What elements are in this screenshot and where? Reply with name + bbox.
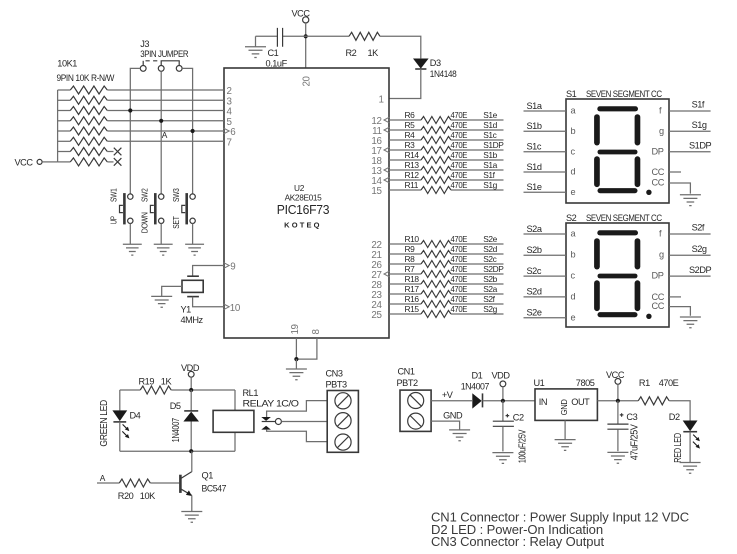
svg-text:S2a: S2a — [483, 284, 497, 294]
wire J3 pin2 to SW2 column — [160, 71, 162, 194]
svg-text:470E: 470E — [451, 284, 468, 294]
svg-text:S2d: S2d — [527, 287, 542, 297]
capacitor C2 100uF/25V — [502, 401, 504, 421]
jumper J3 dashed alternate position — [142, 61, 144, 66]
svg-text:470E: 470E — [451, 110, 468, 120]
wire lead S1c — [524, 151, 567, 153]
wire top rail left — [120, 389, 140, 391]
svg-text:470E: 470E — [451, 120, 468, 130]
wire common to CN3-2 — [281, 421, 327, 423]
svg-text:470E: 470E — [451, 264, 468, 274]
wire lead S2g — [669, 254, 711, 256]
wire lead S1DP — [669, 151, 711, 153]
svg-text:S1b: S1b — [483, 150, 497, 160]
wire junction to ground — [295, 359, 297, 369]
resistor R17 470E (pin 23 to S2a) — [389, 293, 421, 295]
svg-text:KOTEQ: KOTEQ — [284, 223, 322, 230]
svg-text:R5: R5 — [405, 120, 416, 130]
resistor R12 470E (pin 14 to S1f) — [389, 179, 421, 181]
wire crystal to pin 10 — [193, 297, 224, 307]
svg-text:470E: 470E — [451, 140, 468, 150]
resistor R8 470E (pin 26 to S2c) — [389, 263, 421, 265]
junction dot SW3 column / pin 6 row — [191, 129, 195, 133]
svg-text:S1e: S1e — [483, 110, 497, 120]
display S1 body — [566, 99, 669, 203]
ground (crystal) — [151, 296, 172, 307]
svg-text:10K: 10K — [140, 491, 156, 501]
svg-text:SW1: SW1 — [109, 188, 119, 202]
LED D4 (green) — [112, 410, 127, 421]
svg-text:10K1: 10K1 — [57, 58, 77, 68]
svg-text:OUT: OUT — [571, 397, 590, 407]
wire pin 9 to crystal — [193, 266, 224, 276]
wire lead S1a — [524, 110, 567, 112]
svg-text:1K: 1K — [368, 48, 380, 58]
svg-text:PIC16F73: PIC16F73 — [277, 202, 330, 217]
ground (SW2) — [154, 244, 173, 255]
wire pin 19 to ground — [295, 338, 297, 359]
wire lead S2b — [524, 254, 567, 256]
svg-text:D5: D5 — [170, 401, 181, 411]
svg-text:S1c: S1c — [483, 130, 496, 140]
svg-text:S1: S1 — [566, 89, 577, 99]
wire SW1 to ground — [129, 224, 131, 245]
svg-text:R3: R3 — [405, 140, 416, 150]
svg-text:470E: 470E — [451, 294, 468, 304]
wire lead S1g — [669, 130, 711, 132]
resistor network unused element 1 — [58, 151, 71, 153]
svg-text:470E: 470E — [659, 378, 679, 388]
resistor network element (pin 4 row) — [58, 110, 71, 112]
svg-text:R15: R15 — [405, 304, 420, 314]
svg-text:20: 20 — [301, 75, 312, 86]
svg-text:CN3: CN3 — [326, 369, 343, 379]
svg-text:SW3: SW3 — [171, 188, 181, 202]
svg-text:VDD: VDD — [492, 370, 511, 380]
resistor R13 470E (pin 13 to S1a) — [389, 169, 421, 171]
svg-text:RELAY 1C/O: RELAY 1C/O — [243, 399, 299, 409]
svg-text:DP: DP — [652, 146, 664, 156]
resistor R1 470E — [638, 397, 669, 405]
wire lead S1e — [524, 191, 567, 193]
ground (SW3) — [185, 244, 204, 255]
svg-text:d: d — [571, 167, 576, 177]
svg-text:470E: 470E — [451, 170, 468, 180]
regulator U1 7805 body — [535, 389, 597, 421]
switch SW2 — [159, 194, 164, 199]
wire collector — [191, 451, 193, 472]
svg-text:R6: R6 — [405, 110, 416, 120]
no-connect X mark 1 — [114, 148, 122, 156]
svg-text:Y1: Y1 — [181, 305, 192, 315]
connector CN3 PBT3 body — [327, 391, 358, 453]
svg-text:+V: +V — [442, 390, 454, 400]
svg-text:S2c: S2c — [527, 266, 542, 276]
svg-text:470E: 470E — [451, 304, 468, 314]
wire lead S1f — [669, 110, 711, 112]
svg-text:BC547: BC547 — [202, 483, 227, 493]
svg-text:RED LED: RED LED — [673, 433, 684, 463]
svg-text:1K: 1K — [161, 376, 173, 386]
svg-text:DOWN: DOWN — [140, 212, 150, 233]
wire R1 to D2 — [669, 401, 690, 421]
svg-text:D4: D4 — [130, 411, 141, 421]
wire R20 to base — [150, 482, 179, 484]
resistor network element (pin 2 row) — [58, 89, 71, 91]
junction dot VDD — [501, 399, 505, 403]
svg-text:3PIN JUMPER: 3PIN JUMPER — [140, 49, 189, 59]
svg-text:D2: D2 — [669, 412, 680, 422]
svg-text:c: c — [571, 146, 576, 156]
wire D4 to bottom rail — [119, 422, 121, 451]
svg-text:CC: CC — [652, 167, 665, 177]
capacitor C1 — [277, 28, 282, 47]
no-connect X mark 2 — [114, 158, 122, 166]
display S2 seg D — [598, 312, 638, 317]
switch SW1 — [128, 194, 133, 199]
svg-text:S1f: S1f — [483, 170, 495, 180]
wire lead S2d — [524, 296, 567, 298]
svg-text:19: 19 — [290, 324, 301, 334]
wire lead S2c — [524, 275, 567, 277]
wire NO contact to CN3-3 — [267, 430, 328, 442]
wire D1 to U1 IN — [483, 400, 536, 402]
wire rail C1 segment — [256, 35, 350, 37]
pin 10 arrow — [224, 304, 230, 310]
svg-text:GND: GND — [443, 411, 463, 421]
svg-text:DP: DP — [652, 271, 664, 281]
resistor R20 10K — [119, 479, 150, 487]
display S1 seg C — [635, 156, 641, 187]
svg-text:g: g — [659, 250, 664, 260]
wire D3 to pin 1 — [389, 69, 421, 99]
svg-text:R4: R4 — [405, 130, 416, 140]
junction dot VCC out — [616, 399, 620, 403]
wire crystal case to ground — [162, 286, 182, 296]
ground (CN1) — [449, 430, 470, 441]
ground (chip) — [286, 369, 307, 380]
display S1 seg F — [594, 114, 600, 145]
svg-text:R9: R9 — [405, 244, 416, 254]
svg-text:470E: 470E — [451, 160, 468, 170]
junction dot VDD rail — [189, 388, 193, 392]
svg-text:S2a: S2a — [527, 224, 543, 234]
wire lead S2f — [669, 233, 711, 235]
svg-text:CC: CC — [652, 177, 665, 187]
svg-text:S2f: S2f — [692, 223, 705, 233]
diode D1 1N4007 — [472, 393, 481, 408]
display S2 seg F — [594, 238, 600, 269]
svg-text:C2: C2 — [513, 412, 524, 422]
svg-text:S2DP: S2DP — [689, 265, 712, 275]
svg-text:UP: UP — [109, 216, 119, 225]
svg-text:e: e — [571, 187, 576, 197]
LED D2 (red) — [683, 421, 698, 432]
svg-text:A: A — [100, 473, 106, 483]
wire U1 GND pin — [564, 420, 566, 439]
ground (D2) — [680, 463, 701, 474]
wire lead S1d — [524, 171, 567, 173]
svg-text:SET: SET — [171, 216, 181, 229]
svg-text:SW2: SW2 — [140, 188, 150, 202]
wire +V — [431, 400, 472, 402]
junction dot pins 19/8 — [294, 357, 298, 361]
resistor R6 470E (pin 12 to S1e) — [389, 119, 421, 121]
svg-text:R2: R2 — [346, 48, 357, 58]
svg-text:a: a — [571, 229, 577, 239]
svg-text:f: f — [659, 106, 662, 116]
connector CN3 screw terminal 3 — [335, 434, 351, 450]
svg-text:c: c — [571, 271, 576, 281]
svg-text:S1f: S1f — [692, 100, 705, 110]
resistor network element (pin 3 row) — [58, 99, 71, 101]
svg-text:S2g: S2g — [483, 304, 497, 314]
svg-text:7805: 7805 — [576, 378, 595, 388]
svg-text:S2c: S2c — [483, 254, 496, 264]
display S2 body — [566, 223, 669, 327]
svg-text:C1: C1 — [268, 48, 279, 58]
display S2 seg B — [635, 238, 641, 269]
resistor R14 470E (pin 18 to S1b) — [389, 159, 421, 161]
display S1 seg A — [597, 106, 638, 111]
svg-text:S1e: S1e — [527, 182, 542, 192]
svg-text:0.1uF: 0.1uF — [266, 58, 288, 68]
wire emitter to ground — [191, 495, 193, 511]
display S1 CC pin stub — [669, 171, 681, 173]
svg-text:S2b: S2b — [483, 274, 497, 284]
svg-text:R18: R18 — [405, 274, 420, 284]
ground (C2) — [492, 453, 513, 464]
jumper J3 pin 1 circle — [140, 66, 146, 72]
ground (display S2) — [680, 317, 701, 328]
svg-text:R1: R1 — [639, 378, 650, 388]
svg-text:R20: R20 — [118, 491, 134, 501]
diode D3 1N4148 — [413, 59, 429, 69]
junction dot SW2 column / pin 5 row — [159, 119, 163, 123]
connector CN1 PBT2 body — [400, 390, 431, 431]
resistor R11 470E (pin 15 to S1g) — [389, 189, 421, 191]
svg-text:1N4007: 1N4007 — [171, 418, 182, 442]
wire pin 8 to ground — [296, 338, 317, 359]
svg-text:S1a: S1a — [483, 160, 497, 170]
connector CN1 screw terminal 1 — [408, 393, 424, 409]
resistor R5 470E (pin 11 to S1d) — [389, 129, 421, 131]
svg-text:J3: J3 — [140, 39, 149, 49]
svg-text:U2: U2 — [294, 183, 305, 193]
wire U1 OUT — [597, 400, 638, 402]
svg-text:S2e: S2e — [483, 234, 497, 244]
svg-text:D3: D3 — [430, 58, 441, 68]
wire SW3 to ground — [192, 224, 194, 245]
display S2 seg E — [594, 280, 600, 311]
display S2 CC pin stub — [669, 296, 681, 298]
svg-text:S1d: S1d — [527, 162, 542, 172]
svg-text:S1a: S1a — [527, 101, 543, 111]
svg-text:CN1: CN1 — [398, 366, 415, 376]
svg-text:R17: R17 — [405, 284, 420, 294]
svg-text:VCC: VCC — [606, 370, 625, 380]
svg-text:470E: 470E — [451, 274, 468, 284]
svg-text:S1g: S1g — [692, 120, 707, 130]
wire R2 to D3 — [380, 36, 421, 58]
diode D5 1N4007 (flyback) — [190, 390, 192, 411]
svg-text:10: 10 — [230, 303, 241, 314]
wire bottom rail — [120, 450, 235, 452]
svg-text:g: g — [659, 126, 664, 136]
svg-text:1N4007: 1N4007 — [461, 381, 490, 391]
svg-text:S1DP: S1DP — [483, 140, 504, 150]
ground (C1) — [255, 36, 257, 46]
wire VCC to network bus — [42, 161, 58, 163]
wire J3 pin3 to SW3 column — [182, 68, 193, 193]
svg-text:GND: GND — [559, 399, 569, 415]
svg-text:RL1: RL1 — [243, 388, 259, 398]
display S2 seg C — [635, 280, 641, 311]
svg-text:470E: 470E — [451, 150, 468, 160]
svg-text:b: b — [571, 250, 576, 260]
wire VDD to rail — [502, 387, 504, 401]
resistor R3 470E (pin 17 to S1DP) — [389, 149, 421, 151]
svg-text:R13: R13 — [405, 160, 420, 170]
ground (Q1 emitter) — [181, 512, 202, 523]
wire lead S2a — [524, 233, 567, 235]
wire SW2 to ground — [160, 224, 162, 245]
svg-text:R16: R16 — [405, 294, 420, 304]
svg-text:U1: U1 — [534, 378, 545, 388]
wire network common bus — [57, 90, 59, 162]
relay RL1 contact NC — [261, 417, 271, 421]
junction dot SW1 column / pin 4 row — [128, 108, 132, 112]
svg-text:S2e: S2e — [527, 308, 542, 318]
ground (SW1) — [123, 244, 142, 255]
svg-text:R10: R10 — [405, 234, 420, 244]
svg-text:A: A — [162, 130, 168, 140]
wire lead S2e — [524, 317, 567, 319]
svg-text:SEVEN SEGMENT CC: SEVEN SEGMENT CC — [586, 213, 662, 223]
svg-text:7: 7 — [227, 137, 232, 148]
connector CN3 screw terminal 2 — [335, 413, 351, 429]
display S2 seg DP — [646, 314, 651, 319]
svg-text:S2: S2 — [566, 213, 577, 223]
jumper J3 cap bracket (pins 2-3) — [161, 61, 179, 66]
resistor network element (pin 7 row) — [58, 140, 71, 142]
crystal Y1 — [187, 275, 199, 277]
resistor R9 470E (pin 21 to S2d) — [389, 253, 421, 255]
pin 9 arrow — [224, 263, 230, 269]
relay RL1 contact NO — [261, 426, 271, 430]
svg-text:IN: IN — [539, 397, 547, 407]
display S1 seg D — [598, 188, 638, 193]
relay RL1 coil — [234, 390, 236, 451]
resistor network element (pin 5 row) — [58, 120, 71, 122]
svg-text:470E: 470E — [451, 130, 468, 140]
svg-text:D1: D1 — [472, 371, 483, 381]
display S2 seg G — [598, 274, 638, 279]
svg-text:9PIN 10K R-N/W: 9PIN 10K R-N/W — [57, 73, 115, 83]
svg-text:S1g: S1g — [483, 180, 497, 190]
svg-text:e: e — [571, 312, 576, 322]
wire lead S2DP — [669, 275, 711, 277]
svg-text:S2b: S2b — [527, 245, 542, 255]
switch SW3 — [190, 194, 195, 199]
svg-text:R19: R19 — [139, 376, 155, 386]
wire VCC to rail and pin 20 — [305, 23, 307, 68]
svg-text:470E: 470E — [451, 254, 468, 264]
svg-text:b: b — [571, 126, 576, 136]
svg-text:Q1: Q1 — [202, 470, 214, 480]
wire top rail right — [171, 389, 235, 391]
connector CN1 screw terminal 2 — [408, 413, 424, 429]
svg-text:R7: R7 — [405, 264, 416, 274]
ground (C3) — [607, 452, 628, 463]
svg-text:S1c: S1c — [527, 142, 542, 152]
svg-text:S2DP: S2DP — [483, 264, 504, 274]
svg-text:9: 9 — [230, 262, 235, 273]
svg-text:S1d: S1d — [483, 120, 497, 130]
wire D5 to bottom rail — [190, 422, 192, 452]
display S1 seg DP — [646, 190, 651, 195]
wire NC contact to CN3-1 — [267, 401, 328, 417]
svg-text:GREEN LED: GREEN LED — [99, 400, 110, 447]
svg-text:470E: 470E — [451, 244, 468, 254]
svg-text:VCC: VCC — [15, 157, 34, 167]
resistor R16 470E (pin 24 to S2f) — [389, 303, 421, 305]
jumper J3 pin 2 circle — [158, 66, 164, 72]
ground (U1) — [555, 440, 576, 451]
svg-text:C3: C3 — [626, 412, 637, 422]
svg-text:S1DP: S1DP — [689, 141, 712, 151]
display S1 CC pin to ground — [669, 183, 690, 194]
display S1 seg B — [635, 114, 641, 145]
capacitor C3 47uF/25V — [617, 401, 619, 424]
svg-text:PBT2: PBT2 — [397, 378, 419, 388]
resistor R2 — [349, 32, 380, 40]
svg-text:470E: 470E — [451, 234, 468, 244]
svg-text:8: 8 — [311, 329, 322, 335]
resistor R19 1K — [140, 386, 171, 394]
svg-text:15: 15 — [371, 186, 382, 197]
junction dot collector — [189, 449, 193, 453]
resistor R7 470E (pin 27 to S2DP) — [389, 273, 421, 275]
wire CN1 GND — [431, 421, 460, 430]
svg-text:25: 25 — [371, 310, 382, 321]
svg-text:SEVEN SEGMENT CC: SEVEN SEGMENT CC — [586, 89, 662, 99]
display S1 seg E — [594, 156, 600, 187]
svg-text:R8: R8 — [405, 254, 416, 264]
jumper J3 pin 3 circle — [176, 66, 182, 72]
svg-text:100uF/25V: 100uF/25V — [518, 429, 529, 463]
svg-text:d: d — [571, 291, 576, 301]
svg-text:S1b: S1b — [527, 121, 542, 131]
connector CN3 screw terminal 1 — [335, 393, 351, 409]
relay RL1 common pole — [262, 421, 276, 423]
svg-text:S2g: S2g — [692, 244, 707, 254]
svg-text:4MHz: 4MHz — [181, 315, 204, 325]
wire lead S1b — [524, 130, 567, 132]
svg-text:CC: CC — [652, 301, 665, 311]
svg-text:CN3 Connector : Relay Output: CN3 Connector : Relay Output — [431, 534, 605, 549]
display S1 seg G — [598, 150, 638, 155]
svg-text:1: 1 — [378, 95, 383, 106]
svg-text:R14: R14 — [405, 150, 420, 160]
svg-text:47uF/25V: 47uF/25V — [629, 424, 640, 460]
wire LED branch — [119, 390, 121, 410]
wire J3 pin1 to SW1 column — [130, 68, 140, 193]
transistor Q1 BC547 — [179, 475, 182, 493]
resistor network unused element 2 — [58, 161, 71, 163]
resistor R10 470E (pin 22 to S2e) — [389, 243, 421, 245]
wire VCC to rail — [617, 384, 619, 401]
